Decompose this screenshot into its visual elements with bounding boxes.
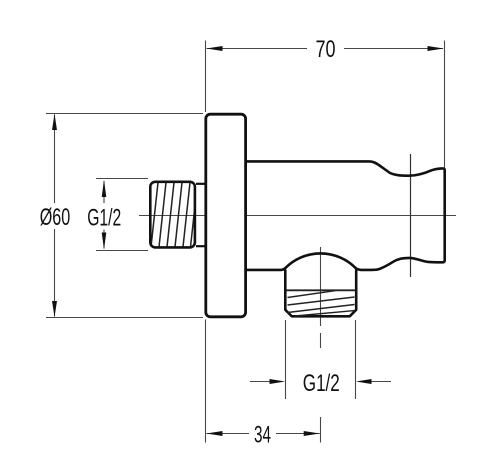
svg-text:G1/2: G1/2 (87, 204, 121, 231)
svg-text:Ø60: Ø60 (40, 204, 71, 231)
svg-text:70: 70 (316, 36, 336, 63)
svg-text:G1/2: G1/2 (303, 370, 340, 397)
svg-text:34: 34 (254, 421, 271, 448)
